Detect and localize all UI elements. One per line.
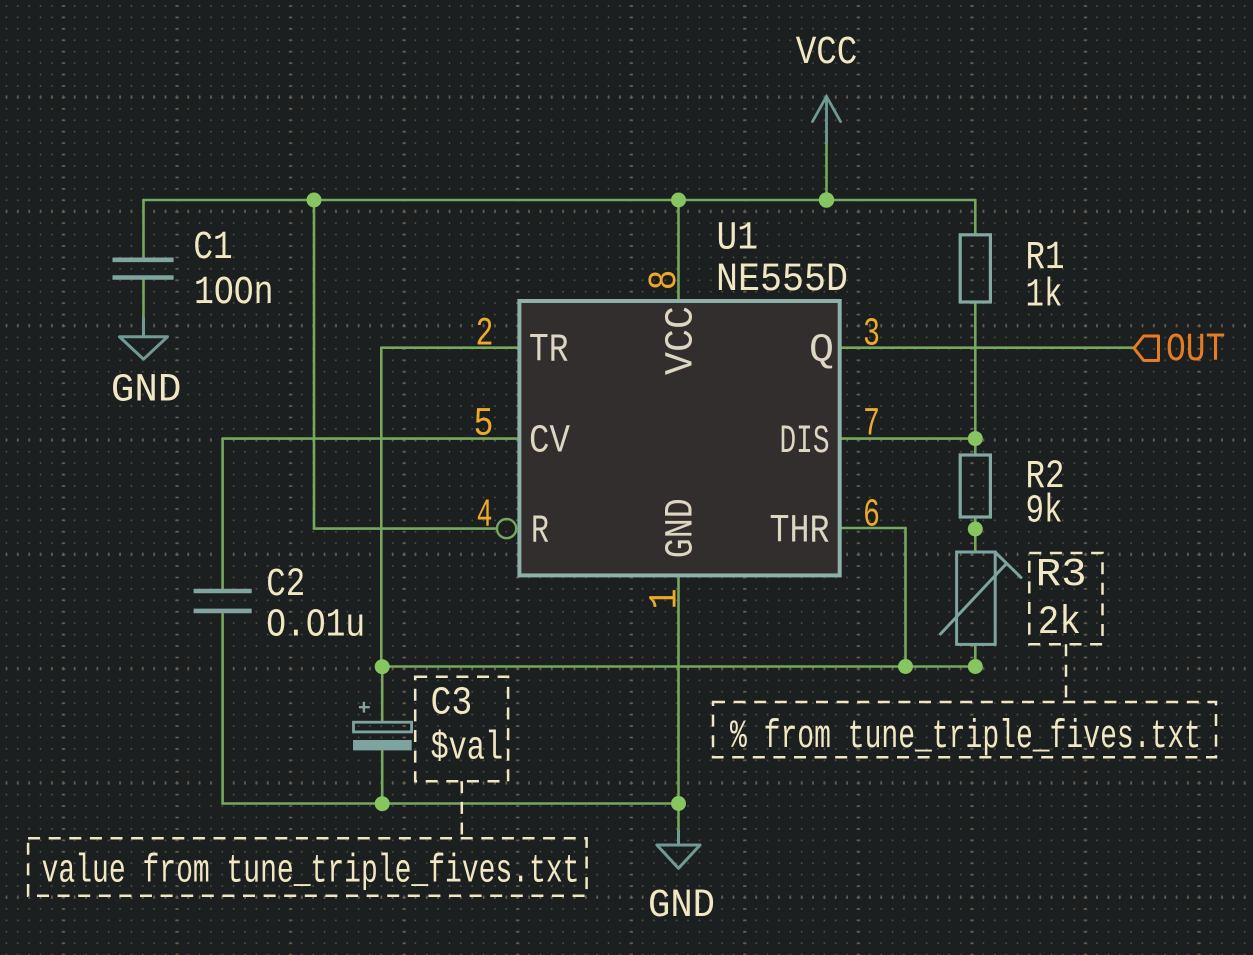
svg-text:O.O1u: O.O1u <box>266 604 365 649</box>
wire DIS horizontal pin 7 <box>840 437 976 440</box>
junction TR-C3 node <box>375 659 390 674</box>
svg-text:NE555D: NE555D <box>716 258 848 303</box>
svg-text:5: 5 <box>474 403 494 448</box>
wire CV horizontal pin 5 <box>223 437 520 440</box>
svg-text:4: 4 <box>477 494 493 539</box>
wire C2 bottom lead <box>221 614 224 804</box>
svg-text:2: 2 <box>476 313 494 358</box>
wire VCC symbol stem <box>825 143 828 200</box>
svg-text:OUT: OUT <box>1166 328 1225 373</box>
pin 4 inversion circle <box>497 519 516 538</box>
junction pin8-rail <box>671 193 686 208</box>
dashed note box value <box>28 838 587 896</box>
wire reset horizontal to pin 4 <box>314 527 497 530</box>
wire pin 1 GND lead <box>677 575 680 803</box>
svg-text:TR: TR <box>529 329 569 374</box>
wire TR horizontal pin 2 <box>381 346 519 349</box>
svg-text:U1: U1 <box>717 217 759 262</box>
wire Q output pin 3 <box>840 346 1135 349</box>
op-amp U1 body (NE555D IC) <box>519 301 839 575</box>
ground symbol bottom <box>657 830 700 868</box>
svg-text:GND: GND <box>660 498 705 558</box>
dashed note box percent <box>713 702 1216 757</box>
wire R2 bottom lead <box>974 517 977 552</box>
svg-text:C3: C3 <box>431 682 473 727</box>
svg-text:Q: Q <box>809 329 834 374</box>
svg-text:C1: C1 <box>193 226 232 271</box>
svg-text:8: 8 <box>643 270 688 291</box>
junction R2-R3 node <box>968 522 983 537</box>
trimmer R3 <box>941 552 1022 644</box>
wire rail to R1 top <box>974 200 977 235</box>
svg-text:value from tune_triple_fives.t: value from tune_triple_fives.txt <box>42 849 580 894</box>
junction reset-rail <box>307 193 322 208</box>
svg-text:1OOn: 1OOn <box>194 271 274 316</box>
leader C3 to note <box>461 781 464 838</box>
wire mid THR line <box>382 665 975 668</box>
dashed box C3 label <box>415 677 508 782</box>
svg-text:GND: GND <box>648 884 715 929</box>
svg-text:GND: GND <box>111 369 181 414</box>
power symbol VCC <box>813 97 841 144</box>
svg-text:VCC: VCC <box>796 31 858 76</box>
svg-text:DIS: DIS <box>780 420 830 465</box>
wire GND symbol stem <box>677 804 680 831</box>
svg-text:2k: 2k <box>1038 601 1081 646</box>
wire R1 bottom lead <box>974 302 977 455</box>
svg-text:VCC: VCC <box>660 306 705 375</box>
wire bottom GND line <box>223 802 679 805</box>
junction GND node <box>671 796 686 811</box>
svg-text:6: 6 <box>863 494 880 539</box>
wire reset riser x=314 <box>313 200 316 529</box>
resistor R2 <box>960 455 990 517</box>
svg-text:C2: C2 <box>266 563 305 608</box>
leader R3 to note <box>1065 644 1068 702</box>
svg-text:% from tune_triple_fives.txt: % from tune_triple_fives.txt <box>730 715 1201 760</box>
svg-text:CV: CV <box>529 420 570 465</box>
svg-text:9k: 9k <box>1026 490 1063 535</box>
svg-text:7: 7 <box>863 403 880 448</box>
svg-text:1k: 1k <box>1026 274 1063 319</box>
wire VCC top rail <box>144 199 976 202</box>
svg-text:R3: R3 <box>1036 553 1087 598</box>
wire TR vertical x=381 <box>380 348 383 667</box>
svg-text:$val: $val <box>431 726 504 771</box>
wire THR horizontal pin 6 <box>840 527 906 530</box>
wire C2 top lead <box>221 439 224 588</box>
wire THR riser x=905 <box>904 528 907 667</box>
capacitor C3 (polarized) <box>354 702 412 750</box>
capacitor C1 <box>113 260 174 278</box>
svg-text:R: R <box>531 510 549 555</box>
wire R3 bottom lead <box>974 644 977 666</box>
ground symbol at C1 <box>120 318 168 359</box>
wire C1 top lead <box>142 200 145 258</box>
svg-text:THR: THR <box>770 510 830 555</box>
junction THR riser node <box>898 659 913 674</box>
junction C3 bottom node <box>375 796 390 811</box>
svg-text:3: 3 <box>863 313 880 358</box>
wire C3 bottom lead <box>381 750 384 804</box>
dashed box R3 label <box>1029 553 1102 644</box>
capacitor C2 <box>194 591 252 611</box>
hierarchical label OUT arrow <box>1134 336 1159 361</box>
resistor R1 <box>960 235 990 302</box>
junction R3 bottom node <box>968 659 983 674</box>
wire pin 8 VCC lead <box>677 200 680 301</box>
wire C3 top lead <box>381 667 384 722</box>
wire C1 bottom lead <box>142 280 145 318</box>
svg-text:1: 1 <box>643 588 688 609</box>
junction VCC-rail <box>819 192 834 207</box>
junction DIS node <box>968 431 983 446</box>
